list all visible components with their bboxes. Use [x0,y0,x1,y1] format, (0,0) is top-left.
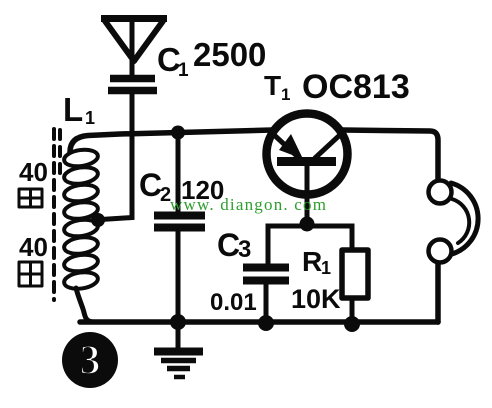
svg-text:C: C [217,227,240,263]
svg-text:1: 1 [321,258,331,278]
core second dashed line [58,130,62,175]
svg-text:3: 3 [80,338,101,384]
label C3 [217,227,251,263]
core of L1 (dashed line) [52,129,56,300]
wire node B to R1 [307,226,352,250]
label T1 OC813 [264,68,410,106]
svg-text:10K: 10K [291,284,341,314]
label 40 turns (upper) [19,157,48,187]
wire coil bottom to bottom rail [76,288,94,322]
wire top rail left (coil top to transistor) [70,130,272,152]
capacitor C1 [108,79,157,91]
svg-text:OC813: OC813 [302,68,410,106]
glyph turns (lower) [19,262,42,286]
label C1 2500 [157,36,266,81]
svg-text:www. diangon. com: www. diangon. com [170,195,327,214]
label 40 turns (lower) [19,232,48,262]
transistor T1 [267,114,348,227]
svg-text:1: 1 [178,60,189,81]
svg-text:0.01: 0.01 [210,289,257,316]
capacitor C2 [154,132,205,322]
label L1 [63,91,95,128]
label 0.01 [210,289,257,316]
wire bottom rail [80,319,438,325]
svg-text:3: 3 [238,236,251,263]
ground [154,322,203,377]
label C2 120 [139,167,224,206]
wire right rail lower [435,263,441,322]
svg-text:1: 1 [85,108,95,128]
label R1 10K [291,246,341,314]
inductor L1 coil loops [63,148,99,291]
node C3 junction [258,315,274,331]
svg-text:C: C [139,167,162,203]
node C2/ground junction [170,314,186,330]
glyph turns (upper) [19,189,42,207]
svg-text:R: R [302,246,322,277]
wire C1 to coil tap [101,94,132,220]
node A (C2 to top rail) [171,126,185,140]
earphone [429,181,479,263]
antenna [101,19,167,77]
svg-text:T: T [264,70,281,101]
node tap junction [91,213,105,227]
capacitor C3 [243,268,289,324]
resistor R1 [342,250,368,324]
wire node B to C3 [268,226,307,264]
svg-text:2500: 2500 [193,36,266,73]
svg-text:40: 40 [19,157,48,187]
svg-text:L: L [63,91,83,128]
node R1 junction [344,316,360,332]
figure number 3 badge [62,332,118,388]
wire top rail right (transistor to earphone) [342,130,438,179]
svg-text:40: 40 [19,232,48,262]
node B (base node) [300,217,315,232]
svg-text:1: 1 [281,85,290,104]
